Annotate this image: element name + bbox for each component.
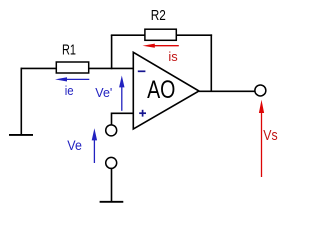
current arrow ie	[55, 77, 89, 81]
svg-text:AO: AO	[147, 76, 175, 104]
terminal node Ve' (upper circle)	[106, 125, 117, 136]
svg-text:is: is	[168, 49, 178, 64]
voltage arrow Ve	[92, 128, 97, 163]
svg-text:Ve': Ve'	[95, 85, 112, 100]
svg-text:R1: R1	[62, 41, 76, 58]
svg-text:ie: ie	[65, 83, 74, 98]
ground (left)	[9, 134, 33, 136]
wire feedback vertical right	[210, 34, 212, 91]
wire non-inverting input horizontal	[112, 112, 134, 114]
voltage arrow Ve'	[119, 76, 124, 111]
current arrow is	[143, 44, 179, 48]
svg-text:Vs: Vs	[263, 127, 277, 144]
non-inverting input plus sign	[139, 110, 146, 117]
op-amp U1	[133, 52, 199, 129]
wire feedback top right	[176, 34, 212, 36]
ground (bottom)	[100, 201, 124, 203]
terminal node output circle	[255, 85, 266, 96]
wire ground stem left	[20, 68, 22, 135]
resistor R2	[145, 29, 176, 40]
inverting input minus sign	[138, 70, 146, 72]
wire input from left node to R1	[21, 67, 56, 69]
svg-text:R2: R2	[151, 7, 166, 24]
wire feedback top left	[111, 34, 145, 36]
wire ground stem bottom	[111, 169, 113, 202]
wire output	[199, 90, 255, 92]
svg-text:Ve: Ve	[67, 138, 82, 153]
resistor R1	[56, 62, 88, 73]
wire R1 to op-amp inverting input	[89, 67, 134, 69]
voltage arrow Vs	[259, 100, 264, 177]
wire feedback vertical left	[111, 35, 113, 69]
wire non-inverting input vertical	[111, 113, 113, 125]
terminal node source (lower circle)	[106, 157, 117, 168]
